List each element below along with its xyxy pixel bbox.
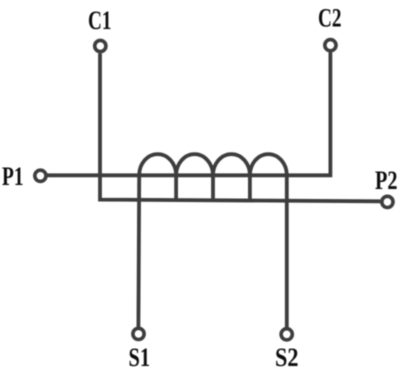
terminal S2 bbox=[281, 329, 292, 340]
wire: C1 drop, lower horizontal line to P2 bbox=[100, 53, 380, 201]
terminal S1 bbox=[133, 328, 144, 339]
svg-text:P1: P1 bbox=[2, 161, 24, 191]
wire: junction rung 3 bbox=[248, 175, 252, 200]
terminal C2 bbox=[325, 40, 336, 51]
svg-text:S1: S1 bbox=[129, 342, 151, 371]
wire: junction rung 2 bbox=[211, 175, 215, 200]
svg-text:C2: C2 bbox=[318, 2, 342, 32]
wire: S2 leg bbox=[285, 175, 289, 327]
terminal C1 bbox=[95, 40, 106, 51]
wire: junction rung 1 bbox=[174, 175, 178, 200]
wire: P1 upper horizontal line to C2 riser bbox=[47, 52, 330, 175]
svg-text:C1: C1 bbox=[88, 5, 112, 35]
svg-text:P2: P2 bbox=[375, 165, 398, 195]
wire: S1 leg bbox=[136, 175, 141, 327]
terminal P1 bbox=[35, 170, 46, 181]
coil: transformer winding (4 arcs) bbox=[139, 154, 287, 175]
svg-text:S2: S2 bbox=[275, 342, 299, 371]
terminal P2 bbox=[382, 196, 393, 207]
